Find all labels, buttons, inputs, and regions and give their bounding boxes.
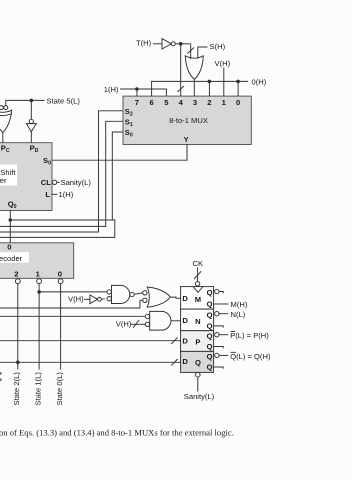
flip-flop stack bodies [181,287,214,373]
FF Q upper Q bubble to Q(L) [215,353,219,357]
wire net to FF P D input [0,340,181,342]
svg-text:Sanity(L): Sanity(L) [61,178,92,187]
svg-text:Y: Y [184,135,189,144]
polarity slash on P D wire [171,337,177,344]
FF P upper Q bubble to P(L) [215,333,219,337]
clock edge indicator [193,287,203,293]
flip-flop P [181,331,214,352]
svg-text:Q: Q [207,300,213,309]
wire State 1(L) [38,284,40,370]
inverter G2 (drives PD) [29,119,33,123]
wire CL to Sanity(L) [57,181,60,183]
svg-text:CK: CK [193,259,204,268]
clock bubble [195,282,199,286]
svg-text:Q: Q [207,310,213,319]
shift register U4 body [0,143,52,211]
wire state1 to NAND upper input [39,291,107,293]
svg-text:6: 6 [149,98,153,107]
decoder U5 body [0,243,74,279]
svg-text:2: 2 [14,269,18,278]
svg-text:CL: CL [41,178,51,187]
wire junction down to MUX pin 4 [180,44,182,96]
svg-text:0: 0 [58,269,62,278]
wire to OR gate left input [190,44,192,59]
svg-text:L: L [45,190,50,199]
flip-flop M [181,287,214,310]
node pin7 [135,87,139,91]
polarity slash on AND lower input [133,320,139,328]
wire inverter to NAND lower input [101,298,105,300]
wire clear to Sanity(L) [197,377,199,392]
svg-text:D: D [182,316,188,325]
svg-text:V(H): V(H) [215,59,231,68]
svg-text:1(H): 1(H) [59,190,74,199]
svg-text:1(H): 1(H) [104,85,119,94]
svg-text:Q: Q [207,363,213,372]
svg-text:V(H): V(H) [116,319,132,328]
wire net to OR lower input [0,300,143,308]
svg-text:er: er [0,176,7,185]
node pin0 [236,80,240,84]
svg-text:7: 7 [135,98,139,107]
wire pin 0 [237,81,239,96]
wire down to PD inverter [30,100,32,119]
wire NAND out to OR upper input [134,293,143,294]
CL bubble [52,180,56,184]
polarity slash on CK wire [194,271,201,279]
or gate G4 [143,291,147,295]
wire L to 1(H) [52,193,58,195]
svg-text:State 1(L): State 1(L) [33,372,42,406]
wire select S0 [112,132,123,220]
wire 1(H) net pins 7,5 [120,89,166,96]
svg-text:Q: Q [195,358,201,367]
nand gate G3 [107,290,111,294]
wire OR output to pin 3 [193,79,195,96]
svg-text:Q: Q [207,288,213,297]
wire pin 7 [136,89,138,96]
polarity slash on pin-4 wire [177,86,184,92]
svg-text:N: N [195,317,200,326]
xor gate G1 (cut off, drives PC) [0,106,3,110]
wire CK [197,268,199,282]
svg-text:Q: Q [207,321,213,330]
wire Q0 down to decoder [9,211,11,243]
wire V(H) to inverter G6 [84,298,90,300]
wire V(H) to pin 1 [223,68,225,97]
wire AND output to FF N D [171,320,181,322]
FF P lower Q stub [214,347,224,349]
wire select S2 [0,111,123,232]
FF Q lower Q stub [214,367,224,369]
edge marks of cut-off rotated label [0,372,2,374]
decoder output bubble 1 [37,279,42,284]
node state5 [30,99,34,103]
svg-text:State 5(L): State 5(L) [47,96,81,105]
svg-text:8-to-1 MUX: 8-to-1 MUX [169,116,208,125]
svg-text:Sanity(L): Sanity(L) [184,392,215,401]
wire pin 2 [208,81,210,96]
svg-text:D: D [182,294,188,303]
svg-text:0(H): 0(H) [252,77,267,86]
svg-text:2: 2 [207,98,211,107]
wire State 2(L) [17,284,19,370]
svg-text:V(H): V(H) [68,295,84,304]
node state1 tap [37,290,41,294]
svg-text:N(L): N(L) [231,310,246,319]
wire select S1 [0,121,123,226]
svg-text:T(H): T(H) [136,39,152,48]
svg-text:State 0(L): State 0(L) [55,372,64,406]
svg-text:State 2(L): State 2(L) [12,372,21,406]
svg-text:Q(L) = Q(H): Q(L) = Q(H) [230,352,271,361]
wire FF M lower Q to M(H) [214,303,229,305]
flip-flop Q [181,351,214,372]
wire State 0(L) [60,284,62,370]
wire net State2 to FF Q D input [0,361,181,363]
or-gate U3 (drives pin 3) [185,56,203,80]
svg-text:D: D [182,337,188,346]
wire V(H) to AND lower input [131,323,146,325]
svg-text:Decoder: Decoder [0,254,23,263]
polarity slash on Q D wire [171,359,177,366]
wire Q0 bus to S0 [0,220,115,237]
FF N lower Q stub [214,326,224,328]
svg-text:Q: Q [207,331,213,340]
wire 0(H) net pins 6,2,0 [152,81,248,96]
node junction above pin 4 [179,42,183,46]
svg-text:D: D [182,357,188,366]
svg-text:M(H): M(H) [231,300,248,309]
and gate G5 [145,314,149,318]
svg-text:M: M [195,295,201,304]
svg-text:S(H): S(H) [210,42,226,51]
decoder output bubble 2 [15,279,20,284]
FF M upper Q bubble and stub [215,289,219,293]
svg-text:0: 0 [7,243,11,252]
flip-flop N [181,309,214,331]
svg-text:on of Eqs. (13.3) and (13.4) a: on of Eqs. (13.3) and (13.4) and 8-to-1 … [0,427,234,437]
inverter U2 (T input) [162,39,171,49]
node pin2 [208,80,212,84]
svg-text:Q: Q [207,342,213,351]
wire MUX Y output to shift register S0 [52,145,187,161]
wire net to AND upper input [0,315,145,317]
svg-text:0: 0 [236,98,240,107]
wire State 5(L) net [6,100,45,105]
svg-text:P: P [195,337,200,346]
8-to-1 MUX U1 body [123,96,251,144]
wire inverter to PD [30,132,32,143]
svg-text:Q: Q [207,352,213,361]
clear bubble at stack bottom [196,372,201,377]
decoder output bubble 0 [58,279,63,284]
wire inverter output [175,43,190,45]
inverter G6 [90,295,98,304]
node state2 tap [16,361,20,365]
svg-text:3: 3 [193,98,197,107]
wire XOR output to PC [2,133,4,143]
FF N upper Q bubble to N(L) [215,312,219,316]
wire S(H) to OR right input [198,47,208,59]
wire OR output to FF M D [170,297,180,298]
wire T(H) to inverter [153,43,162,45]
node Q0 [9,218,13,222]
polarity slash on OR left input [187,48,194,54]
svg-text:P(L) = P(H): P(L) = P(H) [230,331,269,340]
